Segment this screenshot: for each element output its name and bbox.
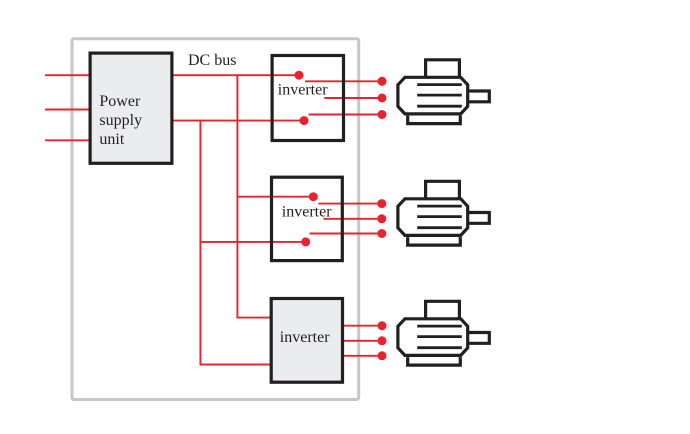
node dot [377,214,386,223]
wire U2 output phase 3 [310,233,382,235]
node dot [378,110,387,119]
node U1 input dot bottom [300,116,309,125]
wire DC bus second rail [172,120,304,122]
node U1 input dot top [295,71,304,80]
motor M2 [398,181,489,245]
wire U1 output phase 1 [305,80,382,82]
node dot [377,199,386,208]
svg-text:Power: Power [99,93,141,110]
inverter U3 border [271,299,342,383]
svg-text:DC bus: DC bus [188,52,236,69]
wire U3 output phase 2 [344,340,382,342]
wire U3 output phase 1 [344,325,382,327]
wire U1 output phase 3 [309,114,382,116]
wire U2 output phase 1 [318,203,381,205]
wire U2 output phase 2 [324,218,382,220]
node U2 input dot top [309,192,318,201]
wire vertical bus B1 to inverter 3 [237,75,272,317]
power supply unit border [90,53,172,163]
inverter U2 border [272,177,343,260]
motor M3 [398,301,489,365]
wire DC bus top rail [172,74,299,76]
svg-text:inverter: inverter [278,82,328,99]
inverter U1 border [272,56,343,141]
wire U1 output phase 2 [324,97,382,99]
power supply unit fill [89,52,174,165]
motor M1 [398,60,489,124]
wire vertical bus B2 to inverter 3 [200,121,272,365]
wire input L1 [45,74,90,76]
enclosure frame (drive cabinet) [72,39,359,400]
wire input L2 [45,109,90,111]
node dot [378,336,387,345]
svg-text:supply: supply [99,112,142,129]
node U2 input dot bottom [301,237,310,246]
wire input L3 [45,139,90,141]
svg-text:inverter: inverter [282,203,332,220]
svg-text:unit: unit [99,131,124,148]
svg-text:inverter: inverter [280,329,330,346]
node dot [378,94,387,103]
node dot [378,77,387,86]
wire branch to inverter 2 top [237,196,313,198]
node dot [378,351,387,360]
node dot [378,321,387,330]
inverter U3 fill [270,297,344,384]
node dot [377,229,386,238]
wire branch to inverter 2 bottom [200,241,305,243]
wire U3 output phase 3 [344,355,382,357]
